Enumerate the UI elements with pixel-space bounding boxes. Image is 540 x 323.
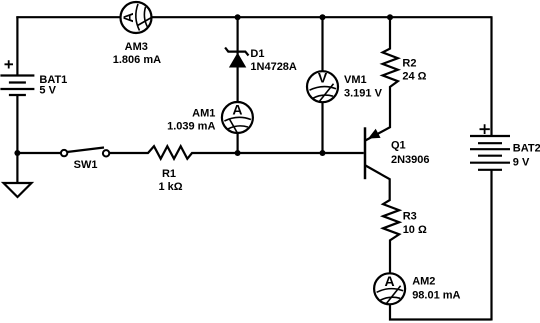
svg-text:VM1: VM1 xyxy=(344,74,367,86)
svg-text:Q1: Q1 xyxy=(391,140,406,152)
svg-text:SW1: SW1 xyxy=(74,159,98,171)
svg-text:V: V xyxy=(318,70,328,86)
svg-text:BAT2: BAT2 xyxy=(513,143,540,155)
svg-text:AM2: AM2 xyxy=(412,276,435,288)
svg-text:1.039 mA: 1.039 mA xyxy=(167,120,215,132)
svg-text:R3: R3 xyxy=(403,211,417,223)
svg-text:2N3906: 2N3906 xyxy=(391,154,430,166)
svg-text:1.806 mA: 1.806 mA xyxy=(113,54,161,66)
svg-text:9 V: 9 V xyxy=(513,156,530,168)
svg-text:98.01 mA: 98.01 mA xyxy=(412,289,460,301)
svg-text:R2: R2 xyxy=(402,58,416,70)
svg-text:A: A xyxy=(232,102,242,118)
svg-text:AM3: AM3 xyxy=(125,41,148,53)
svg-text:R1: R1 xyxy=(162,168,176,180)
svg-text:A: A xyxy=(120,12,136,22)
svg-text:1 kΩ: 1 kΩ xyxy=(158,181,182,193)
svg-text:AM1: AM1 xyxy=(192,107,215,119)
svg-text:3.191 V: 3.191 V xyxy=(344,87,383,99)
svg-text:24 Ω: 24 Ω xyxy=(402,70,426,82)
svg-text:1N4728A: 1N4728A xyxy=(250,61,297,73)
svg-text:5 V: 5 V xyxy=(39,85,56,97)
svg-text:A: A xyxy=(385,273,395,289)
svg-text:10 Ω: 10 Ω xyxy=(403,224,427,236)
svg-text:D1: D1 xyxy=(250,48,264,60)
